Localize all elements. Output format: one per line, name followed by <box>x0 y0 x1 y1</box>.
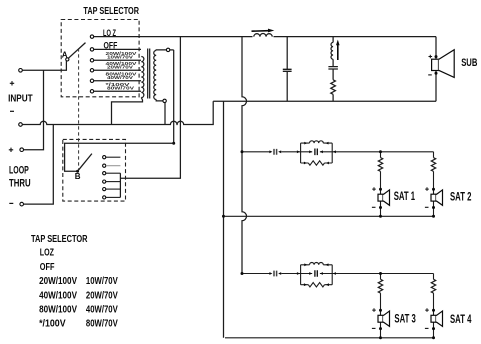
switch B contact 6 <box>103 196 106 199</box>
switch A pivot terminal <box>66 58 69 61</box>
svg-text:OFF: OFF <box>40 262 55 273</box>
junction SAT 4 return <box>432 336 435 339</box>
wire: INPUT+ to switch A pivot <box>22 61 66 70</box>
wire: primary bottom to input minus line <box>112 98 143 125</box>
junction SAT 1 + <box>379 188 382 191</box>
LOOP plus sign <box>9 148 13 152</box>
resistor R2 (trap bottom branch) <box>301 162 333 164</box>
parallel trap network bars <box>301 265 333 285</box>
switch A contact 80W/100V tap <box>90 79 93 82</box>
resistor R5 (trap bottom branch) <box>301 284 333 286</box>
transformer T1 core <box>148 49 150 99</box>
switch A contact 20W/100V tap <box>90 59 93 62</box>
wire: vertical from secondary top down to switch B feed <box>173 50 175 143</box>
junction SAT 1 - <box>379 206 382 209</box>
wire: INPUT- line to return rail (with hops) <box>22 101 213 124</box>
LOOP THRU - terminal <box>20 202 24 206</box>
parallel trap network bars <box>301 143 333 163</box>
svg-text:SAT 4: SAT 4 <box>450 314 472 326</box>
switch A contact OFF <box>90 48 93 51</box>
switch A contact LO Z <box>90 35 93 38</box>
feed-line arrows at trap bars <box>297 150 300 153</box>
capacitor C1 (shunt to return) <box>286 37 288 102</box>
resistor R6 (SAT 3 series) <box>378 279 382 293</box>
switch B contact 4 <box>103 180 106 183</box>
LOOP THRU + terminal <box>20 148 24 152</box>
junction SAT 2 + <box>432 188 435 191</box>
svg-text:SAT 2: SAT 2 <box>450 192 471 204</box>
capacitor C3 (series) <box>274 149 277 155</box>
wire: return bus down-left (x=223.5) <box>223 101 225 337</box>
junction feed/SAT 3 <box>379 272 382 275</box>
switch B pivot <box>76 170 79 173</box>
speaker SAT 3 <box>378 315 383 322</box>
wire: SAT return line y=216.3 <box>225 215 434 217</box>
notch network: capacitor C2 <box>332 59 334 80</box>
svg-text:TAP SELECTOR: TAP SELECTOR <box>31 234 88 245</box>
switch B contact 5 <box>103 188 106 191</box>
svg-text:SUB: SUB <box>461 57 477 69</box>
svg-text:80W/100V: 80W/100V <box>39 304 77 315</box>
switch B contact bus <box>119 173 121 197</box>
wire: SAT 1 branch drop <box>380 152 382 217</box>
wire: SAT return line y=337.8 <box>225 337 434 339</box>
junction SAT 2 - <box>432 206 435 209</box>
svg-text:*/100V: */100V <box>39 319 66 330</box>
wire: SAT 3 branch drop <box>380 274 382 338</box>
wire: return rail (secondary common) <box>213 100 436 102</box>
svg-text:40W/70V: 40W/70V <box>86 304 118 315</box>
junction SAT 3 + <box>379 309 382 312</box>
wire: contact */100V tap to transformer primary <box>94 90 141 92</box>
switch B dashed box <box>63 139 126 201</box>
svg-text:THRU: THRU <box>9 178 31 190</box>
junction SAT 4 + <box>432 309 435 312</box>
INPUT - terminal <box>19 123 23 127</box>
speaker SUB <box>432 59 439 70</box>
switch B contact 1 (LO Z) <box>103 156 106 159</box>
switch B arm <box>78 154 92 172</box>
resistor R7 (SAT 4 series) <box>431 279 435 293</box>
svg-text:LOOP: LOOP <box>9 165 29 177</box>
wire: LOOP THRU - up to INPUT- line <box>24 125 54 205</box>
inductor L4 (trap top branch) <box>301 264 333 266</box>
wire: SAT feed line y=273.5 <box>244 273 434 275</box>
capacitor C4 (trap middle branch) <box>301 151 333 153</box>
wire: SUB speaker drop <box>435 37 437 102</box>
svg-text:20W/100V: 20W/100V <box>39 276 77 287</box>
junction SUB + <box>435 55 438 58</box>
svg-text:INPUT: INPUT <box>8 94 33 105</box>
junction feed bus / SAT3-4 feed <box>241 272 244 275</box>
transformer T1 primary winding <box>141 57 144 98</box>
junction SAT 1 return <box>379 215 382 218</box>
capacitor C5 (series) <box>274 271 277 277</box>
transformer T1 secondary winding <box>154 51 156 100</box>
svg-text:SAT 1: SAT 1 <box>394 191 416 203</box>
switch B contact 3 <box>103 172 106 175</box>
junction SAT 2 return <box>432 215 435 218</box>
notch network: inductor L2 <box>332 37 334 43</box>
resistor R4 (SAT 2 series) <box>431 158 435 172</box>
INPUT minus sign <box>10 110 14 112</box>
switch A contact 40W/100V tap <box>90 69 93 72</box>
inductor L1 (series choke on top rail) <box>253 34 274 39</box>
wire: secondary top terminal to vertical <box>170 49 174 51</box>
svg-text:SAT 3: SAT 3 <box>394 314 415 326</box>
INPUT plus sign <box>10 81 14 85</box>
wire: contact OFF to transformer primary <box>94 48 141 50</box>
switch B contact 2 (OFF) <box>103 164 106 167</box>
wire: contact 80W/100V tap to transformer primary <box>94 80 141 82</box>
junction secondary-top / switch B riser <box>172 142 175 145</box>
junction feed/SAT 1 <box>379 150 382 153</box>
svg-text:10W/70V: 10W/70V <box>107 54 133 59</box>
svg-text:B: B <box>75 172 81 181</box>
junction feed bus / SAT1-2 feed <box>241 150 244 153</box>
svg-text:10W/70V: 10W/70V <box>86 276 118 287</box>
junction SAT 3 return <box>379 336 382 339</box>
wire: contact 20W/100V tap to transformer primary <box>94 59 141 61</box>
L2 adjustable core arrow <box>337 44 339 61</box>
wire: contact 40W/100V tap to transformer primary <box>94 69 141 71</box>
wire: vertical from top rail down to switch B contact bus <box>120 37 180 179</box>
junction SUB - <box>435 72 438 75</box>
junction return bus / SAT1-2 return <box>222 215 225 218</box>
wire: SAT 2 branch drop <box>433 152 435 217</box>
wire: switch B pivot riser to secondary-top junction <box>65 143 174 171</box>
secondary top terminal <box>166 48 169 51</box>
wire: secondary top lead <box>156 49 166 52</box>
wire: secondary bottom to input minus line <box>164 103 166 125</box>
wire: INPUT+ branch down to LOOP THRU + <box>24 70 44 149</box>
resistor R3 (SAT 1 series) <box>378 158 382 172</box>
svg-text:20W/70V: 20W/70V <box>86 290 118 301</box>
capacitor C6 (trap middle branch) <box>301 273 333 275</box>
wire: secondary bottom lead <box>156 100 163 101</box>
svg-text:TAP SELECTOR: TAP SELECTOR <box>83 5 139 17</box>
secondary bottom terminal <box>163 99 166 102</box>
LOOP minus sign <box>9 202 13 204</box>
switch A arm <box>68 43 85 59</box>
INPUT + terminal <box>19 69 23 73</box>
feed-line arrows at trap bars <box>297 272 300 275</box>
svg-text:80W/70V: 80W/70V <box>107 85 134 90</box>
switch A contact */100V tap <box>90 90 93 93</box>
L1 adjustable core arrow <box>252 30 269 33</box>
svg-text:40W/100V: 40W/100V <box>39 290 77 301</box>
speaker SAT 1 <box>378 194 383 201</box>
inductor L3 (trap top branch) <box>301 142 333 144</box>
tap selector dashed box (switch A) <box>61 20 139 97</box>
SUB plus sign <box>429 55 433 59</box>
wire: SAT feed line y=151.8 <box>244 151 434 153</box>
wire: top output rail (LO Z line) <box>94 36 436 38</box>
svg-text:80W/70V: 80W/70V <box>86 319 118 330</box>
speaker SAT 4 <box>431 315 436 322</box>
speaker SAT 2 <box>431 194 436 201</box>
SUB minus sign <box>428 74 432 76</box>
wire: + feed bus from top rail with hops <box>242 37 247 274</box>
notch network: resistor R1 <box>331 80 336 95</box>
wire: SAT 4 branch drop <box>433 274 435 338</box>
svg-text:20W/70V: 20W/70V <box>107 64 133 69</box>
svg-text:40W/70V: 40W/70V <box>107 75 133 80</box>
ganged-switch mechanical link (dashed) <box>78 48 80 170</box>
junction SAT 4 - <box>432 327 435 330</box>
svg-text:LOZ: LOZ <box>40 248 54 259</box>
junction SAT 3 - <box>379 327 382 330</box>
